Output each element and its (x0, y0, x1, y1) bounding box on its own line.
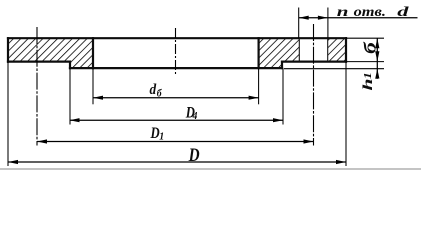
svg-text:1: 1 (362, 72, 374, 79)
svg-text:б: б (362, 41, 380, 54)
svg-text:d: d (397, 4, 409, 20)
svg-text:D: D (150, 125, 160, 142)
svg-text:h: h (360, 78, 375, 90)
svg-text:n: n (337, 4, 349, 20)
svg-text:отв.: отв. (354, 4, 386, 20)
svg-text:1: 1 (159, 131, 164, 143)
svg-text:D: D (188, 145, 200, 166)
svg-text:4: 4 (192, 111, 198, 123)
